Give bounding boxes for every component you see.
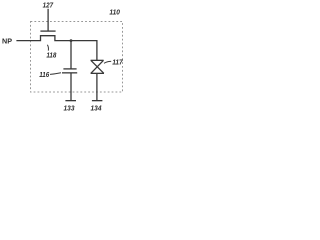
svg-text:118: 118 [46,51,57,60]
svg-text:133: 133 [64,104,75,113]
svg-text:134: 134 [91,104,102,113]
svg-text:127: 127 [43,1,54,10]
svg-text:110: 110 [109,7,120,16]
svg-text:116: 116 [39,70,50,79]
svg-text:NP: NP [2,37,12,46]
svg-text:117: 117 [112,57,123,66]
